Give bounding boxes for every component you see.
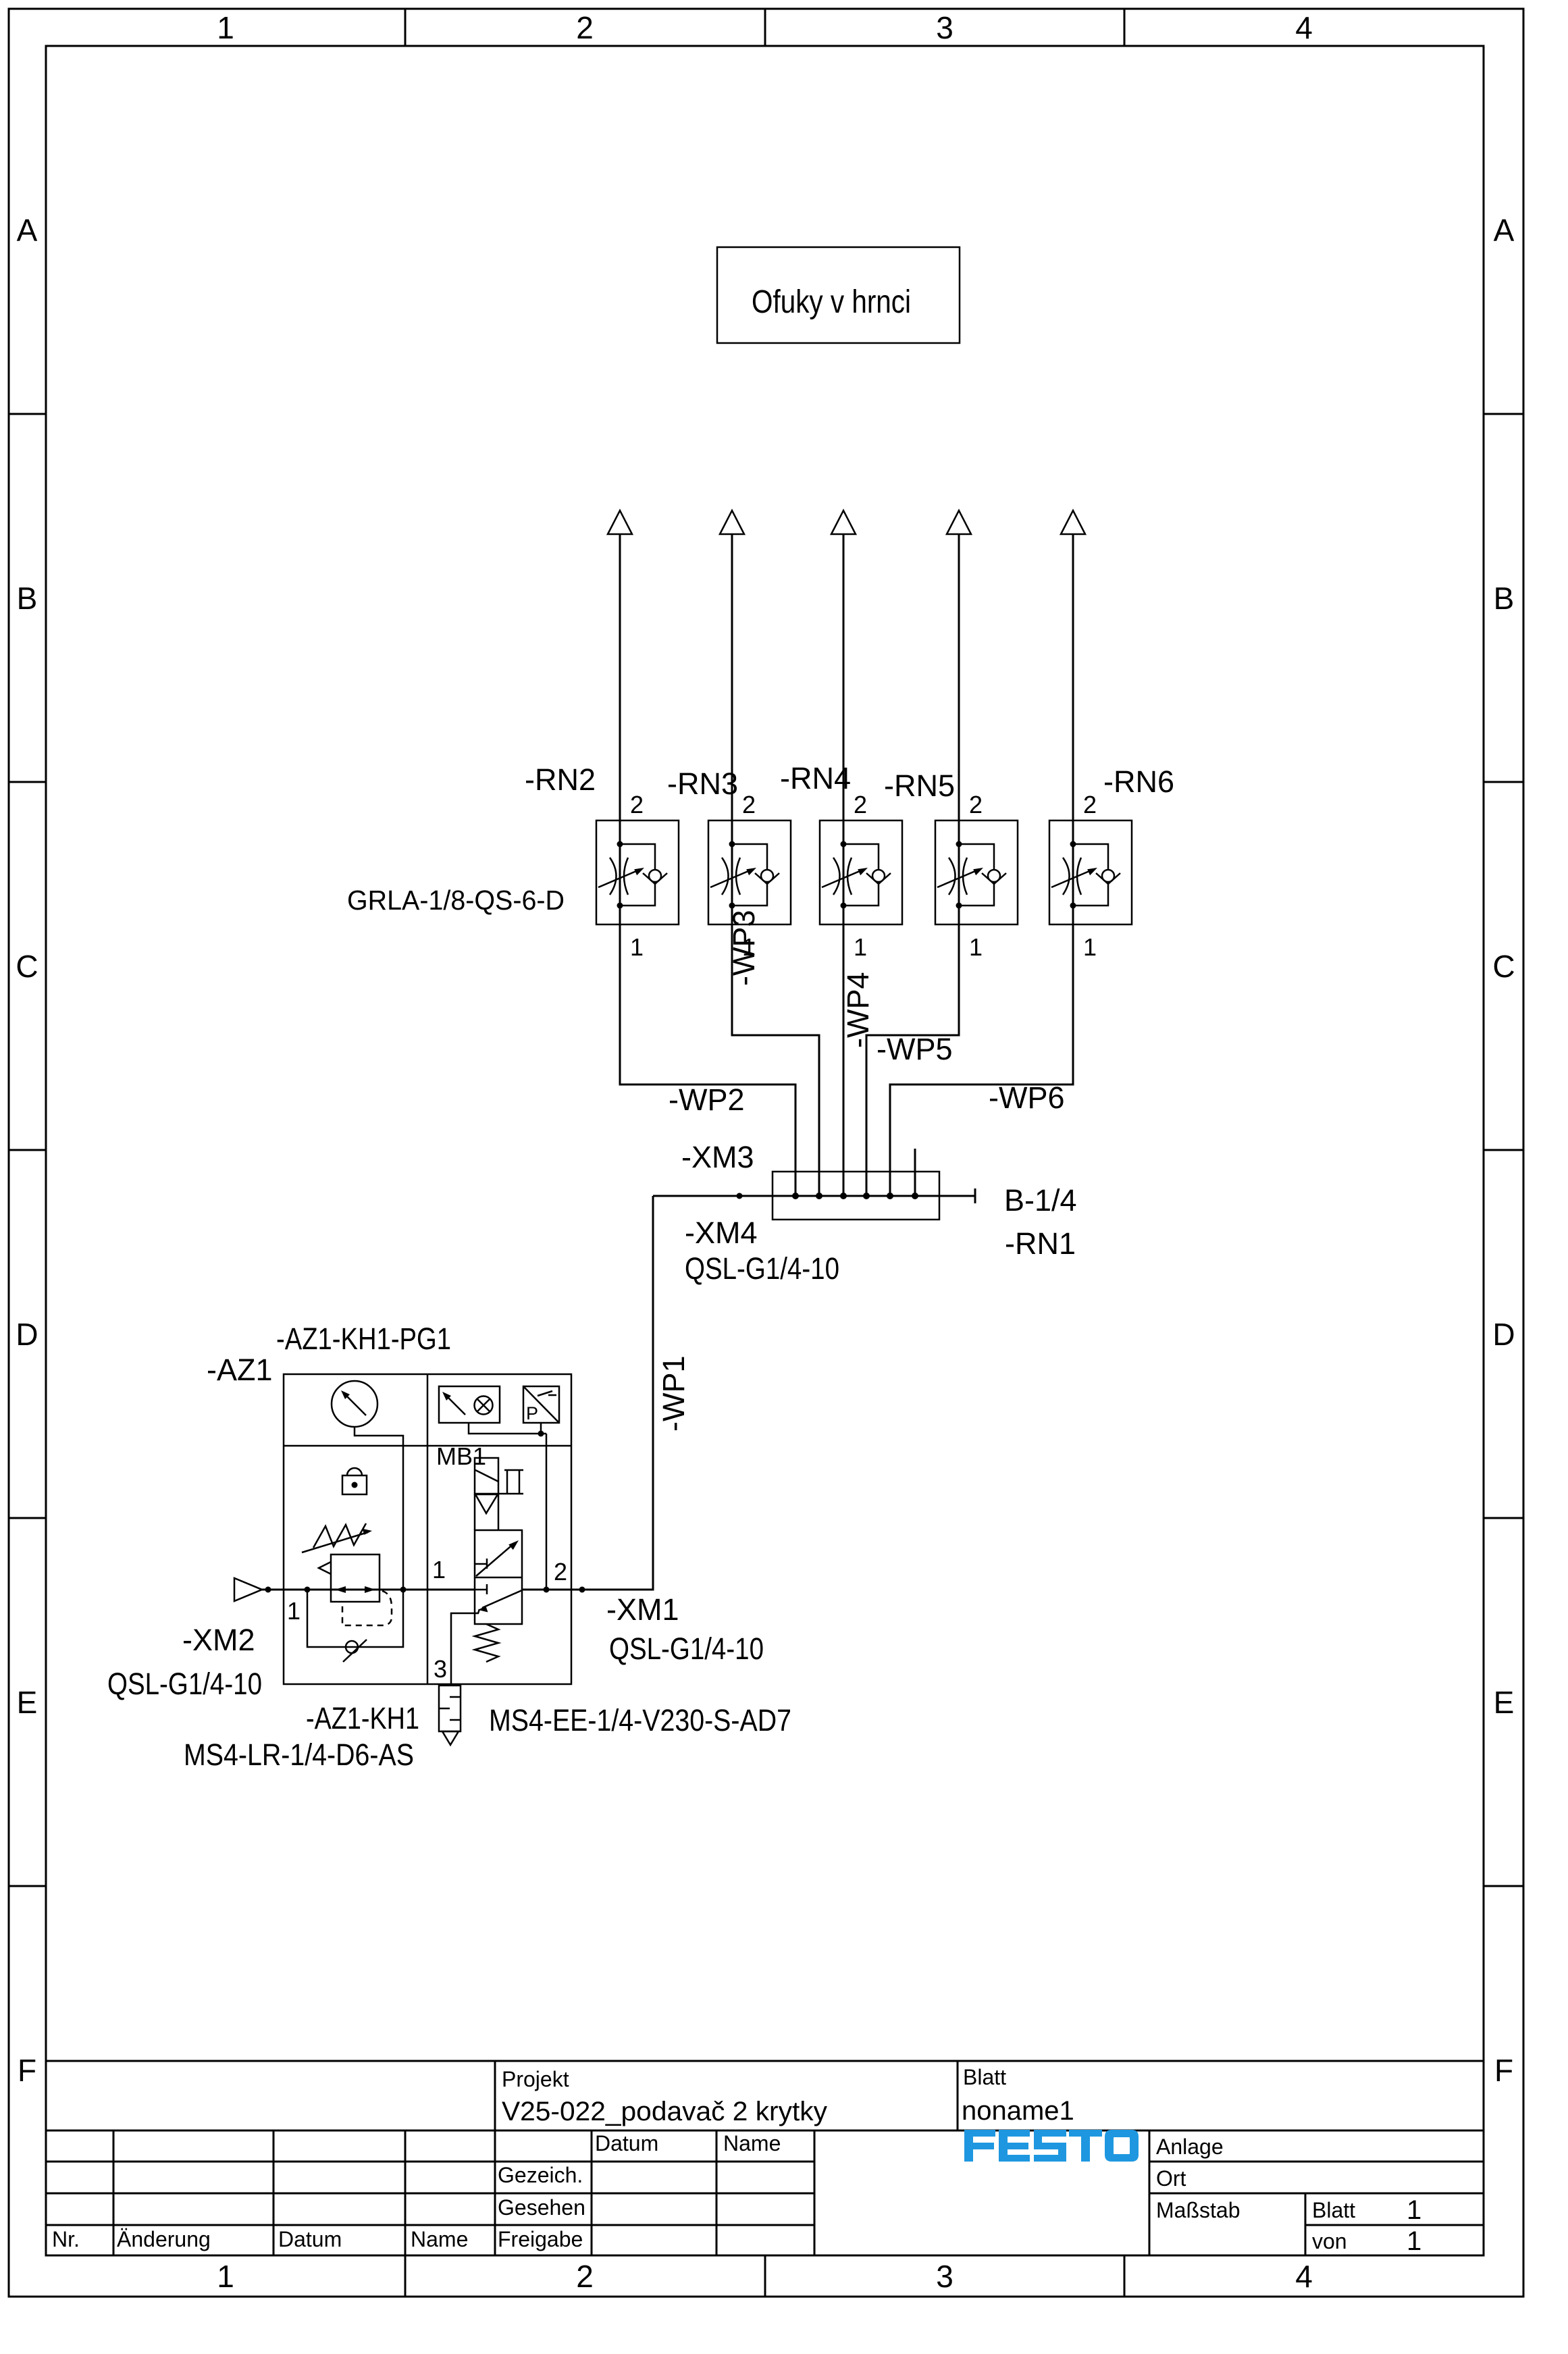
svg-text:-AZ1-KH1-PG1: -AZ1-KH1-PG1	[276, 1322, 451, 1356]
svg-text:3: 3	[936, 2259, 953, 2294]
relief drain loop	[307, 1590, 403, 1647]
svg-text:-AZ1: -AZ1	[207, 1353, 273, 1387]
svg-text:-WP2: -WP2	[669, 1082, 745, 1117]
wire from RN6 to manifold	[890, 534, 1073, 1196]
top band column dividers	[405, 9, 1124, 46]
svg-text:-RN5: -RN5	[884, 768, 955, 803]
regulator pilot line dashed	[342, 1591, 392, 1625]
svg-text:-AZ1-KH1: -AZ1-KH1	[306, 1701, 419, 1735]
wire from RN2 to manifold	[620, 534, 795, 1196]
sink arrow 2	[720, 511, 744, 534]
wire WP1 from manifold to service unit	[582, 1196, 653, 1590]
left band row dividers	[9, 414, 46, 1886]
sink arrow 1	[608, 511, 632, 534]
svg-text:A: A	[17, 213, 38, 248]
svg-text:Ofuky v hrnci: Ofuky v hrnci	[752, 284, 911, 320]
svg-text:C: C	[16, 949, 38, 984]
flow control valve RN2	[596, 791, 679, 961]
bottom band column dividers	[405, 2256, 1124, 2297]
svg-text:Blatt: Blatt	[1312, 2198, 1355, 2222]
svg-text:D: D	[16, 1317, 38, 1352]
flow control valve RN5	[935, 791, 1018, 961]
wire from RN3 to manifold	[732, 534, 819, 1196]
enclosure divider horizontal	[284, 1445, 571, 1447]
pressure regulator body	[331, 1554, 380, 1602]
relief check valve	[346, 1641, 358, 1653]
svg-text:MB1: MB1	[436, 1442, 486, 1470]
sink arrow 3	[831, 511, 856, 534]
svg-text:1: 1	[432, 1556, 446, 1584]
bottom band numbers	[217, 2259, 1313, 2294]
svg-text:-XM4: -XM4	[685, 1215, 758, 1250]
left band letters	[16, 213, 38, 2088]
svg-text:V25-022_podavač 2 krytky: V25-022_podavač 2 krytky	[502, 2097, 827, 2126]
silencer	[439, 1685, 461, 1731]
svg-text:Anlage: Anlage	[1156, 2135, 1224, 2159]
svg-text:Datum: Datum	[278, 2227, 342, 2251]
gauge connection wire	[355, 1427, 403, 1590]
svg-text:-WP1: -WP1	[656, 1356, 691, 1432]
svg-text:E: E	[1494, 1685, 1515, 1720]
svg-text:3: 3	[936, 10, 953, 45]
svg-text:C: C	[1492, 949, 1515, 984]
right band row dividers	[1484, 414, 1523, 1886]
svg-text:MS4-LR-1/4-D6-AS: MS4-LR-1/4-D6-AS	[184, 1737, 414, 1772]
svg-text:Projekt: Projekt	[502, 2067, 569, 2091]
svg-text:1: 1	[217, 2259, 234, 2294]
pilot triangle	[475, 1494, 498, 1513]
svg-text:-WP6: -WP6	[989, 1080, 1065, 1115]
svg-text:2: 2	[576, 10, 594, 45]
svg-text:-WP5: -WP5	[877, 1032, 953, 1066]
svg-text:-RN4: -RN4	[780, 761, 851, 795]
regulator adjustment spring	[313, 1523, 366, 1548]
wire from RN4 to manifold	[843, 534, 845, 1196]
svg-text:D: D	[1492, 1317, 1515, 1352]
pressure switch box	[523, 1386, 559, 1423]
svg-text:P: P	[526, 1403, 538, 1423]
svg-text:QSL-G1/4-10: QSL-G1/4-10	[107, 1667, 262, 1701]
manifold QSL distributor RN1	[773, 1172, 939, 1220]
svg-text:Änderung: Änderung	[117, 2227, 211, 2251]
svg-text:F: F	[1494, 2053, 1513, 2088]
svg-text:4: 4	[1295, 2259, 1313, 2294]
lock symbol	[342, 1475, 367, 1494]
svg-text:F: F	[18, 2053, 36, 2088]
regulator adjustment arrow	[302, 1532, 368, 1552]
main flow line left	[262, 1589, 475, 1591]
top band numbers	[217, 10, 1313, 45]
svg-text:GRLA-1/8-QS-6-D: GRLA-1/8-QS-6-D	[347, 885, 565, 916]
svg-text:1: 1	[1407, 2195, 1421, 2225]
svg-text:Gezeich.: Gezeich.	[498, 2163, 583, 2187]
input port triangle XM2	[234, 1578, 262, 1601]
svg-text:1: 1	[287, 1597, 300, 1625]
flow control valve RN4	[820, 791, 902, 961]
FESTO logo	[964, 2130, 1139, 2162]
title block vertical lines	[113, 2061, 1305, 2256]
svg-text:noname1: noname1	[962, 2096, 1074, 2126]
svg-text:QSL-G1/4-10: QSL-G1/4-10	[685, 1251, 839, 1286]
valve bottom position: blocked port and exhaust arrow	[475, 1584, 487, 1594]
svg-text:Maßstab: Maßstab	[1156, 2198, 1240, 2222]
valve return spring	[475, 1624, 498, 1662]
svg-text:B-1/4: B-1/4	[1004, 1183, 1077, 1218]
svg-text:3: 3	[434, 1655, 447, 1683]
svg-text:Datum: Datum	[595, 2131, 658, 2155]
wire from RN5 to manifold	[866, 534, 959, 1196]
svg-text:-XM1: -XM1	[606, 1592, 679, 1627]
exhaust line port 3	[451, 1609, 479, 1684]
svg-text:4: 4	[1295, 10, 1313, 45]
svg-text:2: 2	[554, 1558, 567, 1586]
pressure gauge PG1	[332, 1381, 377, 1427]
regulator vent triangle	[319, 1562, 331, 1574]
valve top position: blocked port and flow arrow	[475, 1559, 487, 1569]
svg-text:B: B	[17, 581, 38, 616]
svg-text:von: von	[1312, 2229, 1347, 2253]
svg-text:-RN1: -RN1	[1005, 1226, 1076, 1261]
title block horizontal lines	[46, 2061, 1484, 2225]
svg-text:A: A	[1494, 213, 1515, 248]
junction dots service unit	[265, 1431, 585, 1593]
svg-text:QSL-G1/4-10: QSL-G1/4-10	[609, 1631, 764, 1666]
flow control valve RN6	[1049, 791, 1132, 961]
svg-text:MS4-EE-1/4-V230-S-AD7: MS4-EE-1/4-V230-S-AD7	[489, 1703, 791, 1737]
svg-text:-WP3: -WP3	[727, 910, 761, 987]
manual override	[498, 1470, 523, 1494]
svg-text:Name: Name	[723, 2131, 781, 2155]
solenoid coil MB1	[475, 1458, 498, 1494]
svg-text:Nr.: Nr.	[52, 2227, 80, 2251]
sink arrow 4	[947, 511, 971, 534]
svg-text:Gesehen: Gesehen	[498, 2195, 585, 2220]
solenoid to valve connection walls	[475, 1494, 498, 1530]
svg-text:B: B	[1494, 581, 1515, 616]
svg-text:Ort: Ort	[1156, 2166, 1186, 2191]
enclosure divider vertical	[427, 1374, 429, 1684]
main flow line right	[522, 1589, 653, 1591]
indicator connection wires	[469, 1423, 546, 1590]
valve body MS4-EE 3/2	[475, 1530, 522, 1624]
svg-text:Blatt: Blatt	[963, 2065, 1006, 2089]
svg-text:-RN2: -RN2	[525, 762, 596, 797]
svg-text:-WP4: -WP4	[841, 972, 875, 1049]
pressure indicator box	[439, 1386, 500, 1423]
service unit enclosure AZ1	[284, 1374, 571, 1684]
svg-text:Freigabe: Freigabe	[498, 2227, 583, 2251]
svg-text:-XM2: -XM2	[182, 1623, 255, 1657]
TITLE NOTE BOX	[717, 247, 960, 343]
sink arrow 5	[1061, 511, 1085, 534]
svg-text:1: 1	[217, 10, 234, 45]
manifold junction dots	[737, 1193, 919, 1199]
svg-text:2: 2	[576, 2259, 594, 2294]
manifold port stub B-1/4	[914, 1149, 916, 1196]
manifold bus line	[653, 1188, 975, 1203]
svg-text:Name: Name	[411, 2227, 468, 2251]
svg-text:-RN3: -RN3	[667, 766, 738, 801]
svg-text:E: E	[17, 1685, 38, 1720]
svg-text:-XM3: -XM3	[681, 1140, 754, 1174]
svg-text:1: 1	[1407, 2226, 1421, 2256]
flow control valve RN3	[708, 791, 791, 961]
svg-text:-RN6: -RN6	[1103, 764, 1174, 799]
right band letters	[1492, 213, 1515, 2088]
regulator internal arrows	[335, 1586, 346, 1593]
